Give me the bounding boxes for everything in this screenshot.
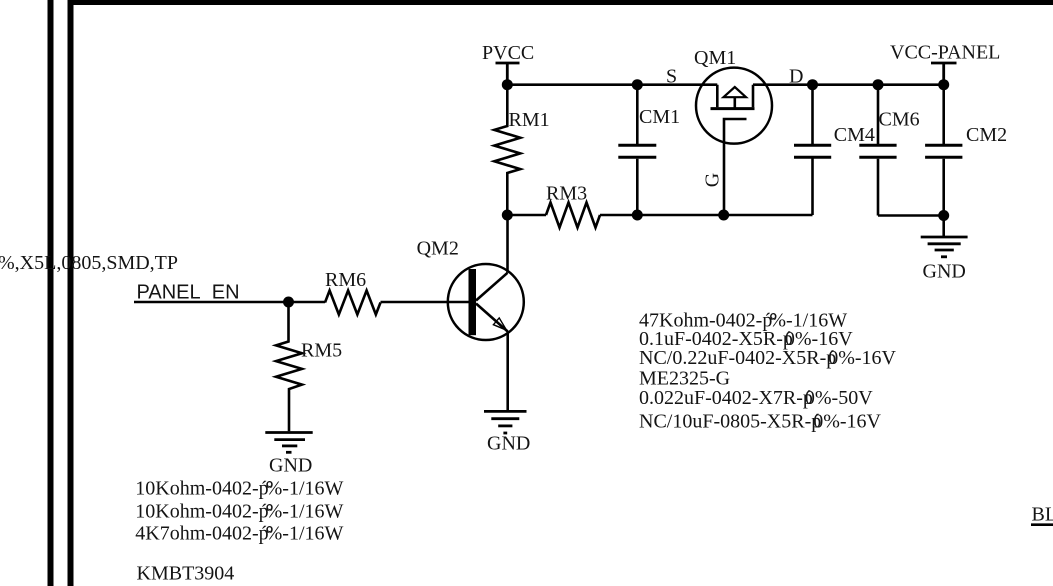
svg-text:CM6: CM6 xyxy=(879,109,920,131)
junction node CM1 top xyxy=(632,79,643,90)
capacitor CM6 xyxy=(859,85,919,216)
svg-text:CM2: CM2 xyxy=(966,124,1007,146)
wire PANEL_EN xyxy=(134,301,289,304)
ground GND RM5 xyxy=(265,433,312,477)
svg-text:GND: GND xyxy=(923,261,966,283)
net label BL (cut off at right) xyxy=(1031,504,1053,526)
svg-text:QM1: QM1 xyxy=(694,47,736,69)
resistor RM6 xyxy=(325,269,381,315)
ground GND right xyxy=(921,237,968,283)
svg-text:KMBT3904: KMBT3904 xyxy=(137,563,235,585)
svg-text:4K7ohm-0402-ṕ°%-1/16W: 4K7ohm-0402-ṕ°%-1/16W xyxy=(135,522,343,544)
junction node gate xyxy=(718,210,729,221)
wire gate line left segment xyxy=(507,214,546,217)
wire top rail QM1 drain to VCC-PANEL xyxy=(753,83,944,86)
svg-text:PVCC: PVCC xyxy=(482,42,534,64)
svg-text:GND: GND xyxy=(487,432,530,454)
svg-text:GND: GND xyxy=(269,455,312,477)
mosfet QM1 xyxy=(694,47,772,144)
svg-text:0.022uF-0402-X7R-ṕ0%-50V: 0.022uF-0402-X7R-ṕ0%-50V xyxy=(639,387,873,409)
svg-text:NC/10uF-0805-X5R-ṕ0%-16V: NC/10uF-0805-X5R-ṕ0%-16V xyxy=(639,410,882,432)
transistor QM2 xyxy=(417,238,524,341)
junction node D xyxy=(807,79,818,90)
svg-text:VCC-PANEL: VCC-PANEL xyxy=(890,42,1000,64)
wire QM2 collector xyxy=(506,215,509,273)
capacitor CM2 xyxy=(925,85,1007,216)
svg-text:S: S xyxy=(666,65,677,87)
power symbol PVCC xyxy=(496,63,520,85)
junction node PANEL_EN / RM5 / RM6 xyxy=(283,297,294,308)
svg-text:NC/0.22uF-0402-X5R-ṕ0%-16V: NC/0.22uF-0402-X5R-ṕ0%-16V xyxy=(639,347,897,369)
svg-text:10Kohm-0402-ṕ°%-1/16W: 10Kohm-0402-ṕ°%-1/16W xyxy=(135,500,343,522)
resistor RM1 xyxy=(494,85,549,215)
wire top rail PVCC to QM1 source xyxy=(507,83,717,86)
junction node CM6 top xyxy=(873,79,884,90)
wire QM1 gate xyxy=(724,119,747,215)
capacitor CM4 xyxy=(794,85,875,158)
junction node VCC-PANEL xyxy=(938,79,949,90)
svg-text:D: D xyxy=(789,65,803,87)
svg-text:CM1: CM1 xyxy=(639,106,680,128)
wire QM2 emitter xyxy=(506,332,509,412)
svg-text:10Kohm-0402-ṕ°%-1/16W: 10Kohm-0402-ṕ°%-1/16W xyxy=(135,478,343,500)
wire CM2 to ground xyxy=(942,216,945,237)
svg-text:%,X5L,0805,SMD,TP: %,X5L,0805,SMD,TP xyxy=(0,252,178,274)
junction node CM2 bottom xyxy=(938,210,949,221)
junction node RM1 bottom / RM3 / QM2 collector xyxy=(502,210,513,221)
svg-text:RM5: RM5 xyxy=(301,340,342,362)
capacitor CM1 xyxy=(618,85,680,215)
junction node PVCC xyxy=(502,79,513,90)
resistor RM5 xyxy=(276,302,342,431)
resistor RM3 xyxy=(546,183,600,228)
power symbol VCC-PANEL xyxy=(931,63,957,85)
wire CM6 to CM2 bottom xyxy=(878,214,944,217)
svg-text:RM6: RM6 xyxy=(325,269,366,291)
svg-text:CM4: CM4 xyxy=(834,124,875,146)
wire CM4 bottom drop xyxy=(811,157,814,215)
svg-text:RM3: RM3 xyxy=(546,183,587,205)
svg-text:PANEL_EN: PANEL_EN xyxy=(137,282,240,304)
svg-text:G: G xyxy=(702,173,724,187)
svg-text:RM1: RM1 xyxy=(509,109,550,131)
ground GND QM2 xyxy=(484,411,530,454)
svg-text:BL: BL xyxy=(1032,504,1053,526)
wire junction to RM6 xyxy=(289,301,326,304)
junction node CM1 bottom xyxy=(632,210,643,221)
wire gate line right segment xyxy=(600,214,813,217)
svg-text:QM2: QM2 xyxy=(417,238,459,260)
wire RM6 to QM2 base xyxy=(381,301,469,304)
